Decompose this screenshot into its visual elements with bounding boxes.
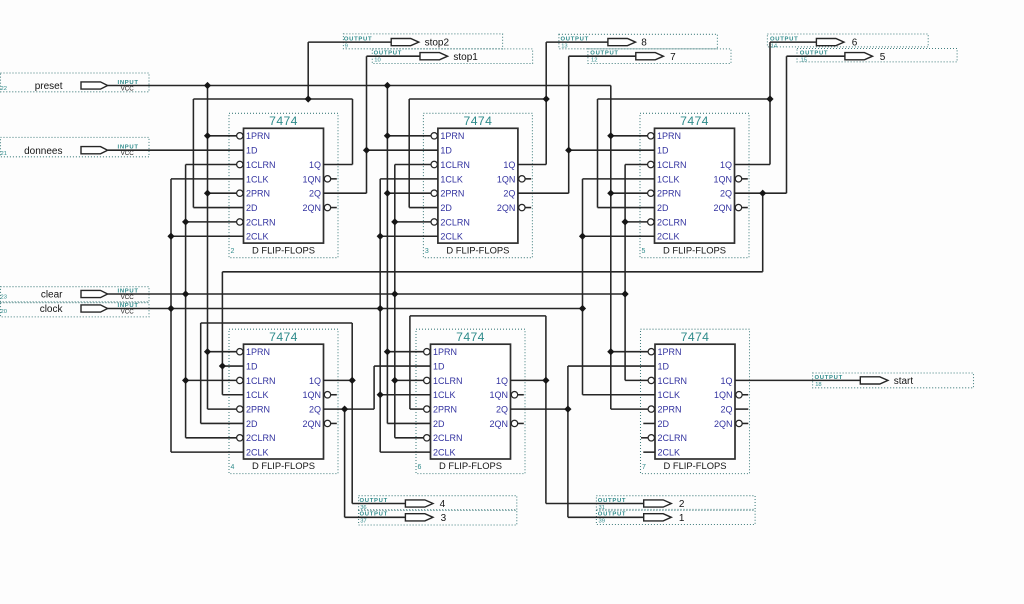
svg-text:1QN: 1QN bbox=[302, 390, 321, 400]
stub U7 2CLK bbox=[643, 451, 655, 453]
svg-text:2QN: 2QN bbox=[713, 203, 732, 213]
output pin stop2 bbox=[343, 34, 502, 50]
wire net CLOCK (pin to CLK pins) bbox=[108, 179, 655, 452]
svg-text:1CLK: 1CLK bbox=[246, 390, 269, 400]
D flip-flop U6 (7474) bbox=[416, 329, 525, 473]
D flip-flop U3 (7474) bbox=[423, 113, 532, 257]
svg-text:2PRN: 2PRN bbox=[658, 405, 682, 415]
input pin preset bbox=[1, 73, 150, 92]
input pin donnees bbox=[1, 137, 150, 157]
svg-text:stop1: stop1 bbox=[453, 52, 478, 63]
svg-text:1CLK: 1CLK bbox=[657, 174, 680, 184]
svg-text:1D: 1D bbox=[246, 146, 258, 156]
output pin stop1 bbox=[372, 49, 532, 64]
wire U4 1Q loop to 2D and output 4 bbox=[201, 323, 406, 504]
svg-text:6: 6 bbox=[418, 464, 422, 471]
svg-text:1CLRN: 1CLRN bbox=[433, 376, 463, 386]
D flip-flop U2 (7474) bbox=[229, 113, 338, 257]
junction dots: wire U3 1Q loop to 2D and output 8 bbox=[543, 95, 550, 102]
svg-text:7: 7 bbox=[670, 52, 676, 63]
svg-text:21: 21 bbox=[1, 151, 7, 157]
svg-text:1CLRN: 1CLRN bbox=[657, 160, 687, 170]
svg-text:2D: 2D bbox=[246, 203, 258, 213]
junction dots: wire U4 2Q to output 3 and U6 1D bbox=[341, 406, 348, 413]
svg-text:2PRN: 2PRN bbox=[657, 189, 681, 199]
svg-text:2D: 2D bbox=[246, 419, 258, 429]
wire U4 2Q to output 3 and U6 1D bbox=[324, 366, 431, 517]
svg-text:1QN: 1QN bbox=[489, 390, 508, 400]
junction dots: wire net CLOCK (pin to CLK pins) bbox=[167, 233, 586, 399]
svg-text:2CLK: 2CLK bbox=[246, 448, 269, 458]
svg-text:20: 20 bbox=[1, 309, 7, 315]
wire U3 2Q to output 7 and U5 1D bbox=[518, 56, 655, 193]
svg-text:7474: 7474 bbox=[680, 114, 709, 128]
wire net CLEAR (pin to CLRN pins) bbox=[108, 165, 649, 438]
svg-text:2CLRN: 2CLRN bbox=[658, 433, 688, 443]
svg-text:2CLRN: 2CLRN bbox=[433, 433, 463, 443]
svg-text:37: 37 bbox=[360, 519, 366, 525]
junction dots: wire U6 2Q to output 1 and U7 1D bbox=[564, 406, 571, 413]
svg-text:D FLIP-FLOPS: D FLIP-FLOPS bbox=[446, 244, 509, 255]
svg-text:2QN: 2QN bbox=[302, 419, 321, 429]
output pin 4 bbox=[359, 496, 517, 511]
junction dots: wire U2 1Q loop to 2D and stop2 bbox=[305, 95, 312, 102]
svg-text:clock: clock bbox=[40, 304, 64, 315]
svg-text:2QN: 2QN bbox=[497, 203, 516, 213]
svg-text:2Q: 2Q bbox=[720, 189, 732, 199]
svg-text:2D: 2D bbox=[657, 203, 669, 213]
svg-text:2CLRN: 2CLRN bbox=[246, 217, 276, 227]
svg-text:2CLK: 2CLK bbox=[657, 232, 680, 242]
svg-text:2PRN: 2PRN bbox=[246, 189, 270, 199]
svg-text:start: start bbox=[894, 376, 914, 387]
svg-text:14: 14 bbox=[771, 44, 778, 50]
svg-text:9: 9 bbox=[345, 44, 348, 50]
junction dots: wire U3 2Q to output 7 and U5 1D bbox=[565, 147, 572, 154]
wire U7 1Q to start bbox=[735, 379, 860, 381]
svg-text:2Q: 2Q bbox=[720, 405, 732, 415]
svg-text:6: 6 bbox=[852, 38, 858, 49]
output pin start bbox=[813, 373, 974, 388]
svg-text:1CLK: 1CLK bbox=[433, 390, 456, 400]
wire net DONNEES (pin to U2 1D) bbox=[108, 149, 244, 151]
svg-text:D FLIP-FLOPS: D FLIP-FLOPS bbox=[252, 244, 315, 255]
D flip-flop U4 (7474) bbox=[229, 329, 338, 473]
wire U2 1Q loop to 2D and stop2 bbox=[193, 42, 391, 207]
svg-text:2D: 2D bbox=[440, 203, 452, 213]
svg-text:23: 23 bbox=[1, 295, 7, 301]
svg-text:1CLRN: 1CLRN bbox=[658, 376, 688, 386]
junction dots: wire U4 1Q loop to 2D and output 4 bbox=[349, 377, 356, 384]
svg-text:4: 4 bbox=[231, 464, 235, 471]
output pin 7 bbox=[588, 49, 731, 64]
stub U7 2CLRN bbox=[641, 437, 648, 439]
svg-text:1Q: 1Q bbox=[720, 376, 732, 386]
junction dots: wire net CLEAR (pin to CLRN pins) bbox=[182, 218, 629, 384]
svg-text:2PRN: 2PRN bbox=[246, 405, 270, 415]
output pin 2 bbox=[596, 496, 755, 511]
svg-text:1CLRN: 1CLRN bbox=[246, 376, 276, 386]
svg-text:D FLIP-FLOPS: D FLIP-FLOPS bbox=[663, 244, 726, 255]
svg-text:1Q: 1Q bbox=[503, 160, 515, 170]
wire U2 2Q to stop1 and U3 1D bbox=[324, 56, 438, 193]
svg-text:1PRN: 1PRN bbox=[658, 347, 682, 357]
svg-text:7: 7 bbox=[642, 464, 646, 471]
svg-text:1CLK: 1CLK bbox=[246, 174, 269, 184]
wire U5 1Q loop to 2D and output 6 bbox=[598, 42, 817, 207]
svg-text:clear: clear bbox=[41, 290, 63, 301]
svg-text:1CLRN: 1CLRN bbox=[246, 160, 276, 170]
svg-text:2Q: 2Q bbox=[309, 189, 321, 199]
svg-text:1CLK: 1CLK bbox=[658, 390, 681, 400]
svg-text:1QN: 1QN bbox=[713, 174, 732, 184]
input pin clear bbox=[1, 287, 150, 302]
svg-text:1QN: 1QN bbox=[302, 174, 321, 184]
svg-text:1D: 1D bbox=[433, 361, 445, 371]
svg-text:22: 22 bbox=[1, 86, 7, 92]
output pin 5 bbox=[797, 49, 957, 64]
svg-text:1: 1 bbox=[679, 513, 685, 524]
svg-text:2: 2 bbox=[679, 499, 685, 510]
svg-text:10: 10 bbox=[374, 58, 380, 64]
svg-text:1D: 1D bbox=[246, 361, 258, 371]
svg-text:2Q: 2Q bbox=[309, 405, 321, 415]
svg-text:D FLIP-FLOPS: D FLIP-FLOPS bbox=[663, 460, 726, 471]
D flip-flop U5 (7474) bbox=[640, 113, 749, 257]
svg-text:2CLK: 2CLK bbox=[246, 232, 269, 242]
svg-text:2D: 2D bbox=[433, 419, 445, 429]
svg-text:donnees: donnees bbox=[24, 146, 62, 157]
svg-text:12: 12 bbox=[591, 58, 597, 64]
svg-text:15: 15 bbox=[801, 58, 807, 64]
output pin 8 bbox=[559, 34, 718, 49]
svg-text:1PRN: 1PRN bbox=[246, 347, 270, 357]
svg-text:1QN: 1QN bbox=[497, 174, 516, 184]
svg-text:18: 18 bbox=[815, 382, 821, 388]
junction dots: wire U6 1Q loop to 2PRN and output 2 bbox=[542, 377, 549, 384]
svg-text:7474: 7474 bbox=[464, 114, 493, 128]
svg-text:2Q: 2Q bbox=[496, 405, 508, 415]
svg-text:1Q: 1Q bbox=[496, 376, 508, 386]
svg-text:2CLK: 2CLK bbox=[658, 448, 681, 458]
svg-text:7474: 7474 bbox=[681, 330, 710, 344]
svg-text:preset: preset bbox=[35, 81, 63, 92]
svg-text:2D: 2D bbox=[658, 419, 670, 429]
svg-text:7474: 7474 bbox=[269, 330, 298, 344]
svg-text:5: 5 bbox=[642, 248, 646, 255]
junction dots: wire U5 2Q to output 5 and U4 1D/1CLK bbox=[219, 190, 767, 370]
junction dots: wire U2 2Q to stop1 and U3 1D bbox=[363, 147, 370, 154]
svg-text:1PRN: 1PRN bbox=[246, 131, 270, 141]
svg-text:4: 4 bbox=[440, 499, 446, 510]
svg-text:1PRN: 1PRN bbox=[433, 347, 457, 357]
svg-text:D FLIP-FLOPS: D FLIP-FLOPS bbox=[439, 460, 502, 471]
svg-text:2Q: 2Q bbox=[503, 189, 515, 199]
svg-text:2QN: 2QN bbox=[714, 419, 733, 429]
svg-text:2QN: 2QN bbox=[489, 419, 508, 429]
svg-text:5: 5 bbox=[880, 52, 886, 63]
svg-text:1CLRN: 1CLRN bbox=[440, 160, 470, 170]
svg-text:VCC: VCC bbox=[121, 294, 135, 301]
svg-text:1Q: 1Q bbox=[309, 160, 321, 170]
svg-text:1Q: 1Q bbox=[309, 376, 321, 386]
wire U6 1Q loop to 2PRN and output 2 bbox=[410, 316, 644, 504]
svg-text:2CLK: 2CLK bbox=[433, 448, 456, 458]
output pin 6 bbox=[767, 34, 928, 50]
junction dots: wire net PRESET (pin to PRN pins of all FFs) bbox=[204, 82, 615, 355]
wire U5 2Q to output 5 and U4 1D/1CLK bbox=[222, 56, 845, 395]
svg-text:VCC: VCC bbox=[121, 150, 135, 157]
svg-text:D FLIP-FLOPS: D FLIP-FLOPS bbox=[252, 460, 315, 471]
svg-text:2CLK: 2CLK bbox=[440, 232, 463, 242]
wire U3 1Q loop to 2D and output 8 bbox=[409, 42, 608, 207]
wire U6 2Q to output 1 and U7 1D bbox=[511, 366, 656, 517]
svg-text:7474: 7474 bbox=[456, 330, 485, 344]
svg-text:2QN: 2QN bbox=[302, 203, 321, 213]
svg-text:1Q: 1Q bbox=[720, 160, 732, 170]
svg-text:VCC: VCC bbox=[121, 308, 135, 315]
svg-text:1D: 1D bbox=[440, 146, 452, 156]
svg-text:VCC: VCC bbox=[121, 85, 135, 92]
svg-text:2PRN: 2PRN bbox=[433, 405, 457, 415]
output pin 1 bbox=[596, 510, 755, 524]
svg-text:1PRN: 1PRN bbox=[440, 131, 464, 141]
svg-text:1QN: 1QN bbox=[714, 390, 733, 400]
svg-text:1D: 1D bbox=[658, 361, 670, 371]
svg-text:36: 36 bbox=[360, 505, 366, 511]
D flip-flop U7 (7474) bbox=[641, 329, 750, 473]
svg-text:stop2: stop2 bbox=[425, 38, 450, 49]
svg-text:2CLRN: 2CLRN bbox=[657, 217, 687, 227]
stub U7 2Q bbox=[735, 408, 748, 410]
svg-text:13: 13 bbox=[561, 44, 567, 50]
svg-text:39: 39 bbox=[599, 519, 605, 525]
svg-text:3: 3 bbox=[441, 513, 447, 524]
input pin clock bbox=[1, 303, 150, 317]
svg-text:1CLK: 1CLK bbox=[440, 174, 463, 184]
stub U7 2D bbox=[643, 422, 655, 424]
wire net PRESET (pin to PRN pins of all FFs) bbox=[108, 86, 649, 424]
svg-text:1D: 1D bbox=[657, 146, 669, 156]
svg-text:2CLRN: 2CLRN bbox=[246, 433, 276, 443]
junction dots: wire U5 1Q loop to 2D and output 6 bbox=[766, 95, 773, 102]
svg-text:2CLRN: 2CLRN bbox=[440, 217, 470, 227]
svg-text:2: 2 bbox=[231, 248, 235, 255]
svg-text:7474: 7474 bbox=[269, 114, 298, 128]
svg-text:3: 3 bbox=[425, 248, 429, 255]
svg-text:2PRN: 2PRN bbox=[440, 189, 464, 199]
svg-text:8: 8 bbox=[641, 38, 647, 49]
output pin 3 bbox=[359, 510, 517, 525]
svg-text:1PRN: 1PRN bbox=[657, 131, 681, 141]
